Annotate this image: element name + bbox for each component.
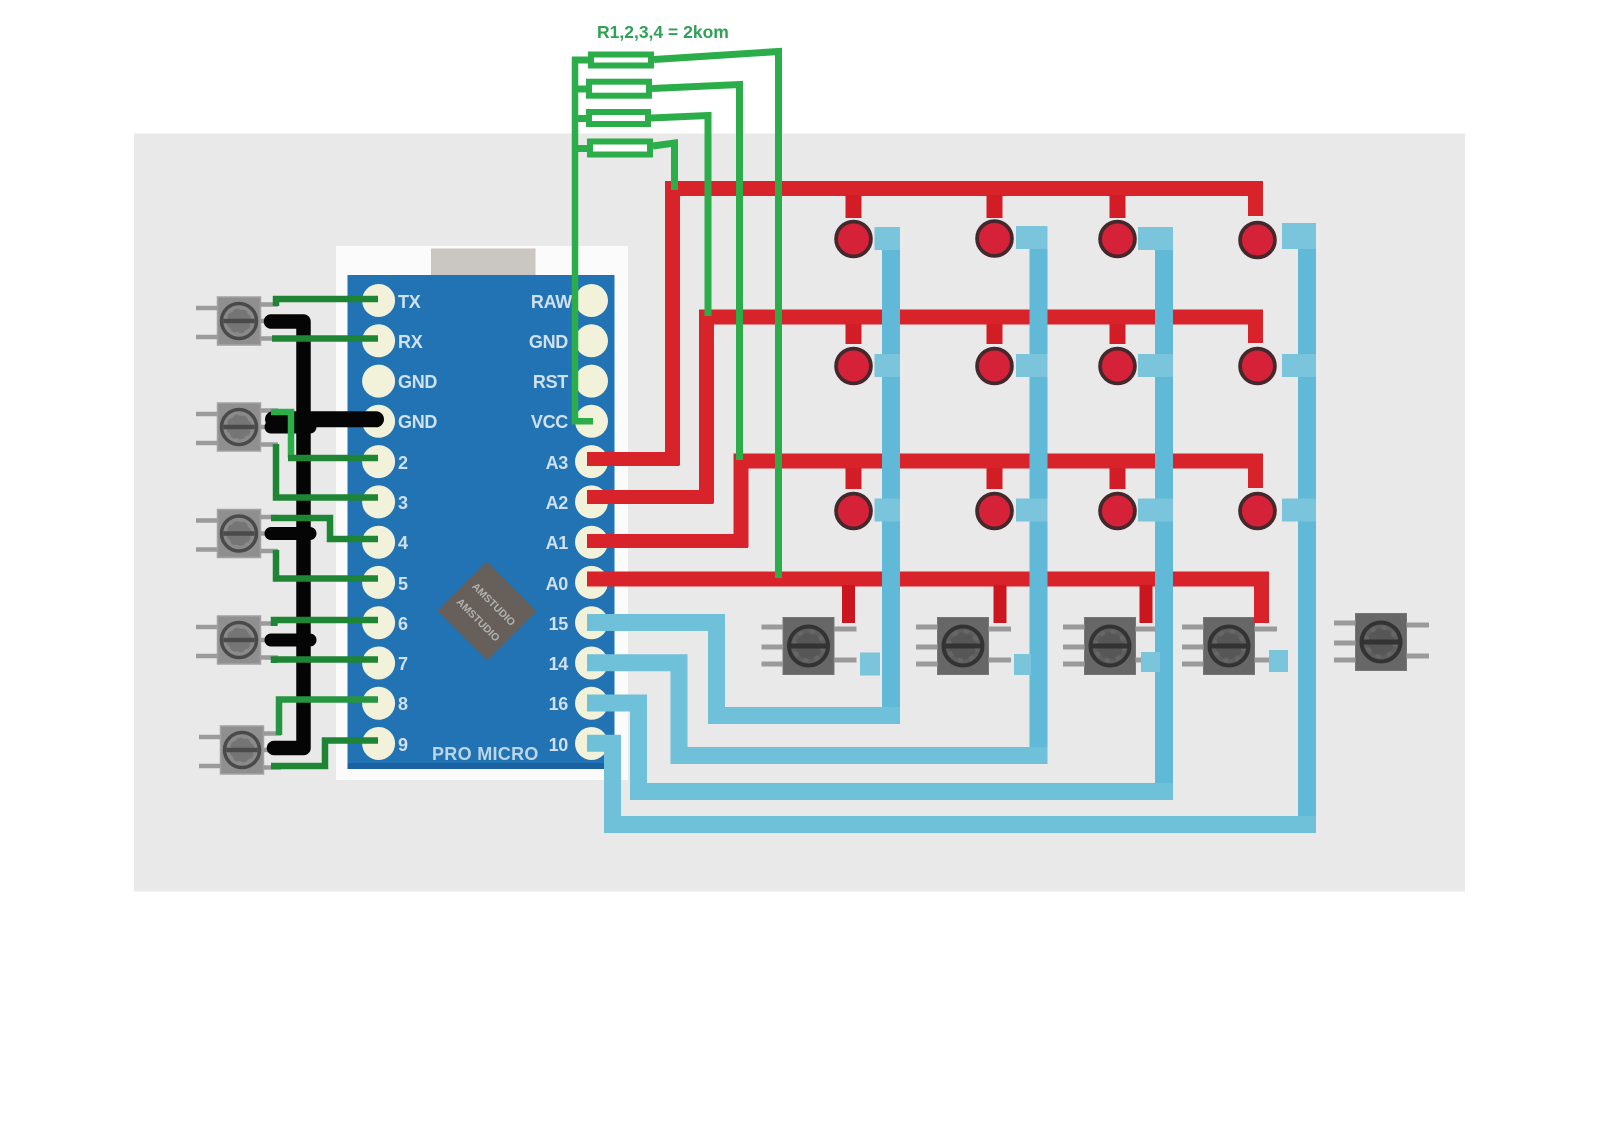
wire green EL5 to pin8 — [279, 700, 378, 736]
LED D9 — [836, 494, 871, 529]
wire green R3 to row2 — [651, 116, 708, 317]
rotary encoder EL1 — [196, 297, 278, 345]
pin pads right column — [575, 284, 608, 760]
wire red row2 LED stubs — [854, 324, 1118, 344]
wire blue column4 vertical — [1298, 223, 1316, 833]
wire blue column1 vertical — [882, 227, 900, 724]
svg-text:RX: RX — [398, 332, 423, 352]
wire green rail stub R2 — [572, 86, 586, 93]
resistor R4 — [590, 142, 650, 155]
wire red row1 (A3 net) — [673, 189, 1256, 466]
LED D12 — [1240, 494, 1275, 529]
svg-text:14: 14 — [549, 654, 569, 674]
Pro Micro board U1 — [348, 275, 615, 769]
pin labels right — [529, 292, 572, 755]
wire red row4 encoder stubs — [849, 585, 1147, 623]
wire green EL3 to pin4 — [271, 518, 378, 539]
rotary encoder EL2 — [196, 403, 278, 451]
svg-text:16: 16 — [549, 694, 569, 714]
svg-text:A3: A3 — [546, 453, 569, 473]
USB connector — [431, 249, 536, 325]
wire blue encoder EB2 square — [1014, 654, 1031, 675]
svg-text:4: 4 — [398, 533, 408, 553]
LED D6 — [977, 349, 1012, 384]
wire green EL1 to RX — [272, 335, 378, 342]
svg-text:R1,2,3,4 = 2kom: R1,2,3,4 = 2kom — [597, 22, 729, 42]
wire red A1 pin stub — [587, 534, 748, 548]
LED D4 — [1240, 223, 1275, 258]
wire green rail stub R1 — [572, 57, 588, 64]
wire green R4 to row1 — [653, 143, 675, 190]
wire green VCC rail — [575, 57, 593, 421]
svg-text:A0: A0 — [546, 574, 569, 594]
rotary encoder EB4 — [1182, 618, 1277, 675]
wire black to GND pin — [273, 411, 376, 427]
svg-text:5: 5 — [398, 574, 408, 594]
wire black stub EL4 — [271, 634, 310, 647]
resistor R2 — [589, 82, 649, 96]
wire green EL3 to pin5 — [276, 550, 378, 579]
wire green R2 to row3 — [652, 85, 740, 461]
pin pads left column — [362, 284, 395, 760]
chip AMSTUDIO — [438, 562, 537, 661]
wire blue encoder EB3 square — [1141, 652, 1160, 672]
svg-text:2: 2 — [398, 453, 408, 473]
svg-text:8: 8 — [398, 694, 408, 714]
wire blue encoder EB1 square — [860, 653, 880, 676]
breadboard panel background — [134, 134, 1465, 892]
wire green EL2 to pin2 — [271, 412, 291, 458]
resistor R3 — [589, 112, 648, 124]
rotary encoder EL5 — [199, 726, 281, 774]
svg-text:15: 15 — [549, 614, 569, 634]
wire red A3 pin stub — [587, 452, 680, 466]
svg-text:RST: RST — [533, 372, 568, 392]
svg-text:GND: GND — [529, 332, 568, 352]
wire blue column4 tabs — [1282, 223, 1316, 522]
svg-text:VCC: VCC — [531, 412, 568, 432]
LED D5 — [836, 349, 871, 384]
wire red row1 LED stubs — [854, 195, 1118, 218]
wire blue column2 tabs — [1016, 226, 1048, 522]
LED D1 — [836, 222, 871, 257]
rotary encoder EL4 — [196, 616, 278, 664]
wire blue column3 vertical — [1155, 227, 1173, 800]
wire red row3 LED stubs — [854, 468, 1118, 489]
wire green EL5 to pin9 — [271, 741, 378, 767]
pin labels left — [398, 292, 437, 755]
wire blue encoder EB4 square — [1269, 650, 1288, 672]
svg-text:GND: GND — [398, 372, 437, 392]
rotary encoder EB3 — [1063, 618, 1158, 675]
svg-text:PRO MICRO: PRO MICRO — [432, 744, 539, 764]
wire green EL4 to pin7 — [274, 660, 378, 664]
wire black stub EL3 — [271, 527, 310, 540]
wire blue column2 vertical — [1030, 226, 1048, 764]
wire green rail stub R4 — [572, 145, 587, 152]
rotary encoder EB5 — [1334, 614, 1429, 671]
wire blue pin10 to column4 — [587, 743, 1316, 824]
LED D10 — [977, 494, 1012, 529]
rotary encoder EB1 — [762, 618, 857, 675]
svg-text:GND: GND — [398, 412, 437, 432]
LED D3 — [1100, 222, 1135, 257]
white backdrop of Pro Micro image — [336, 246, 628, 780]
wire black stub EL2 — [271, 421, 310, 434]
wire green rail stub R3 — [572, 115, 586, 122]
svg-text:RAW: RAW — [531, 292, 572, 312]
wire red A2 pin stub — [587, 490, 714, 504]
wire red row4 (A0 net) — [587, 579, 1262, 623]
svg-text:6: 6 — [398, 614, 408, 634]
wire blue column1 tabs — [875, 227, 901, 522]
wire red row3 (A1 net) — [741, 461, 1256, 547]
wire blue pin16 to column3 — [587, 703, 1173, 792]
wire green EL4 to pin6 — [274, 620, 378, 626]
resistor R1 — [591, 55, 651, 66]
LED D7 — [1100, 349, 1135, 384]
wire red row2 (A2 net) — [707, 317, 1256, 503]
svg-text:TX: TX — [398, 292, 421, 312]
svg-text:9: 9 — [398, 735, 408, 755]
rotary encoder EL3 — [196, 510, 278, 558]
wire green EL2 to pin3 — [276, 444, 378, 498]
svg-text:7: 7 — [398, 654, 408, 674]
LED D11 — [1100, 494, 1135, 529]
rotary encoder EB2 — [916, 618, 1011, 675]
wire green EL1 to TX — [276, 299, 378, 306]
wire black ground bus vertical — [271, 322, 304, 749]
LED D2 — [977, 221, 1012, 256]
svg-text:A1: A1 — [546, 533, 569, 553]
wire blue column3 tabs — [1138, 227, 1173, 522]
svg-text:3: 3 — [398, 493, 408, 513]
wire green R1 to row4 — [654, 52, 779, 579]
LED D8 — [1240, 349, 1275, 384]
wire blue pin14 to column2 — [587, 663, 1048, 756]
svg-text:A2: A2 — [546, 493, 569, 513]
wire blue pin15 to column1 — [587, 623, 900, 716]
svg-text:10: 10 — [549, 735, 569, 755]
